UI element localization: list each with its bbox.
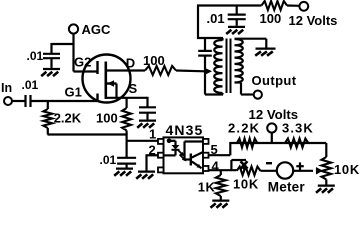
svg-text:Output: Output: [252, 73, 297, 88]
svg-text:G2: G2: [74, 55, 91, 70]
svg-text:1K: 1K: [198, 180, 216, 195]
svg-text:G1: G1: [65, 85, 82, 100]
svg-text:.01: .01: [207, 11, 225, 26]
svg-text:Meter: Meter: [268, 180, 306, 195]
svg-text:100: 100: [260, 11, 282, 26]
svg-text:In: In: [1, 81, 12, 95]
svg-text:1: 1: [149, 127, 156, 142]
svg-text:D: D: [126, 56, 135, 71]
svg-text:3.3K: 3.3K: [282, 121, 314, 136]
svg-text:12 Volts: 12 Volts: [289, 13, 338, 28]
svg-text:100: 100: [143, 53, 165, 68]
svg-text:.01: .01: [100, 153, 117, 167]
svg-text:AGC: AGC: [82, 22, 112, 37]
svg-text:2.2K: 2.2K: [54, 111, 82, 126]
svg-text:4N35: 4N35: [166, 122, 204, 138]
svg-text:10K: 10K: [334, 162, 360, 177]
svg-text:10K: 10K: [233, 177, 259, 192]
svg-text:.01: .01: [22, 78, 39, 92]
svg-text:S: S: [129, 81, 138, 96]
svg-text:100: 100: [96, 111, 118, 126]
svg-text:2.2K: 2.2K: [228, 121, 260, 136]
svg-text:12 Volts: 12 Volts: [249, 107, 299, 122]
svg-text:.01: .01: [27, 49, 44, 63]
svg-text:2: 2: [149, 143, 156, 158]
